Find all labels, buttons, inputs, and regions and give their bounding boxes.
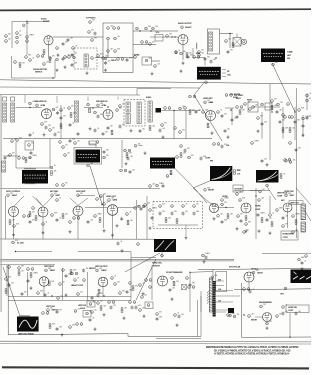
callout pair [284,159,291,162]
wire V branch V8a [70,198,78,206]
label crt socket [280,294,285,296]
resistor [127,220,129,225]
label vert osc lbl [46,306,56,308]
svg-text:220: 220 [149,58,152,60]
callout tone [145,59,148,62]
ground [89,127,92,130]
callout [236,193,239,196]
small circle below T3 [87,164,90,167]
callout filter [91,57,94,60]
label 2nd anode b [283,237,289,239]
svg-text:150: 150 [21,271,24,273]
wire b4 vert x136 [136,200,138,239]
label height [89,268,97,270]
svg-text:150: 150 [67,55,70,57]
callout 12au7 a [7,194,10,197]
resistor [35,216,37,221]
node [230,109,231,110]
box X a [182,285,187,290]
capacitor [224,129,227,133]
ground [269,231,272,234]
label video amp [106,196,117,198]
node [255,195,256,196]
callout pair b3 top [213,143,220,146]
wire band1/2 lower rail [0,87,200,88]
svg-text:WIDTH: WIDTH [251,320,258,322]
capacitor right b [295,312,298,316]
callout pair crt [243,288,250,291]
wire drop x186 [185,111,187,139]
wire left of tube [255,316,263,318]
svg-text:B+ 135V: B+ 135V [17,243,25,245]
svg-text:6SN7GT: 6SN7GT [153,266,161,268]
label vert output [95,266,108,268]
capacitor line filter [104,61,107,65]
wire B+ bus lower [0,260,234,262]
svg-text:150: 150 [92,20,95,22]
label 12BH7 [50,270,57,272]
label below blob6 [208,190,215,192]
callout [237,215,240,218]
label damper [259,301,272,304]
resistor [62,214,64,219]
svg-text:.047: .047 [274,105,277,107]
capacitor [89,318,92,322]
svg-text:.01: .01 [142,283,144,285]
winding T3 b [137,102,141,124]
svg-text:.002: .002 [90,220,93,222]
callout [111,277,114,280]
wire plate out [53,36,103,38]
callout [91,39,94,42]
callout [62,269,65,272]
capacitor [107,126,110,130]
tube V16 hi volt rect [244,272,254,282]
svg-text:20 KV PULSE: 20 KV PULSE [229,267,241,269]
ground [213,217,216,220]
wire V14 drop [102,287,104,297]
callout [13,225,16,228]
resistor right of blob5 [170,170,172,175]
switch contact 2 [114,37,117,40]
callout [277,103,280,106]
callout [259,190,262,193]
callout on rail b [156,184,159,187]
callout [68,107,71,110]
label hold [80,308,86,310]
ground [257,129,260,132]
resistor left of box [88,31,91,34]
capacitor b3 top [221,145,224,149]
capacitor [221,220,224,224]
tube V9 video output [107,205,118,216]
svg-text:.05: .05 [47,293,49,295]
label speaker field [111,60,117,62]
svg-text:.002: .002 [152,126,155,128]
callout [298,258,301,261]
callout [225,40,228,43]
winding T3 a1 [126,102,130,112]
svg-text:.047: .047 [60,111,63,113]
diag corner [296,188,311,205]
callout [59,141,62,144]
label T2 part [287,51,293,54]
callout [144,204,147,207]
component [126,213,129,216]
svg-text:PEAK: PEAK [247,99,253,102]
wire V11 out [218,207,234,209]
left edge winding [2,161,6,172]
label sync control [6,191,21,193]
svg-text:AFC DISC: AFC DISC [50,190,59,193]
component [62,146,65,149]
label tuner above [196,53,201,55]
tube V3 2nd video IF [42,109,52,119]
svg-text:220: 220 [63,116,66,118]
label 2nd video IF [35,101,48,103]
label agc keyer [230,93,241,96]
callout [282,306,285,309]
resistor [5,289,7,294]
wire left col [6,265,8,296]
resistor V12b r [295,220,297,225]
capacitor i1 [159,212,162,216]
callout [174,127,177,130]
callout [271,100,274,103]
svg-text:HEIGHT CONT: HEIGHT CONT [71,285,84,287]
node [150,30,151,31]
wire V branch V7b [36,198,43,207]
label in box [235,189,243,191]
svg-text:SYNC AMP: SYNC AMP [76,190,86,193]
svg-text:1 MEG: 1 MEG [254,141,259,143]
svg-text:.047: .047 [99,268,102,270]
svg-text:150: 150 [106,155,109,157]
svg-text:100: 100 [183,51,186,53]
callout [103,203,106,206]
wire V16 down [248,282,250,290]
capacitor C205 [71,53,74,57]
svg-text:1 MEG: 1 MEG [97,214,102,216]
svg-text:.047: .047 [110,49,113,51]
component below V17 [266,322,269,325]
svg-text:.05: .05 [92,318,94,320]
label 12AU7 a [12,194,19,197]
speaker frame [233,38,241,47]
ground [203,260,206,263]
capacitor [279,120,282,124]
box right ctl [145,302,153,309]
capacitor [119,125,122,129]
svg-text:.002: .002 [155,26,158,28]
node [101,204,102,205]
node [103,295,104,296]
capacitor i4 [193,212,196,216]
resistor R204 [26,36,29,39]
svg-text:TV PHONO: TV PHONO [86,18,96,20]
speaker diag 1 [233,38,241,47]
svg-text:470: 470 [262,189,265,191]
ground det [211,131,214,134]
capacitor i2 [171,212,174,216]
winding T1 [209,32,213,51]
wire CRT rail y289 [234,289,311,290]
component [62,184,65,187]
callout [171,277,174,280]
svg-text:VERT MULT: VERT MULT [44,266,55,268]
svg-text:470: 470 [282,120,285,122]
wire band4 right rail [234,190,258,192]
wire vert box right edge a [197,300,199,337]
capacitor [94,129,97,133]
ground [236,227,239,230]
svg-text:.01: .01 [177,313,179,315]
box around T3 blob [74,148,102,165]
tube V12a horiz osc [241,203,251,213]
callout [248,315,251,318]
callout [217,111,220,114]
label vert osc b [290,195,295,197]
capacitor [110,306,113,310]
callout 4.5 [176,156,179,159]
ground below V17 [266,326,269,329]
svg-text:WIDTH: WIDTH [208,190,215,192]
svg-text:.05: .05 [252,289,254,291]
pilot lamp [104,57,107,60]
svg-text:.01: .01 [285,305,287,307]
resistor [282,128,284,133]
svg-text:150: 150 [237,314,240,316]
callout [227,314,230,317]
svg-text:470: 470 [191,155,194,157]
svg-text:.01: .01 [178,50,180,52]
callout [137,243,140,246]
wire V9 drop [112,216,114,240]
resistor [271,222,273,227]
callout pair [76,323,83,326]
resistor [9,220,11,225]
svg-text:1ST VIDEO: 1ST VIDEO [234,95,244,97]
callout pair [37,55,44,58]
svg-text:100: 100 [80,292,83,294]
label b+ a [17,243,25,245]
capacitor rail b2 b [54,133,57,137]
label width [251,320,258,322]
svg-text:220: 220 [137,206,140,208]
capacitor [65,274,68,278]
svg-text:.047: .047 [309,93,311,95]
capacitor C204 [67,38,70,42]
label 6CB6 b [102,105,108,107]
callout 31 [56,47,59,50]
switch contact 1 [107,37,110,40]
capacitor right a [282,312,285,316]
wire band2 top rail left [0,94,140,96]
tube V4 3rd video IF [103,110,113,120]
box below blob6 [233,185,243,192]
diag tuner down-left [194,83,222,142]
svg-text:470: 470 [32,212,35,214]
capacitor [30,151,33,155]
svg-text:220: 220 [185,211,188,213]
svg-text:HORIZ DRIVE: HORIZ DRIVE [283,234,295,236]
svg-text:.047: .047 [67,153,70,155]
callout pair height [71,272,78,275]
interlock marks b [113,27,120,30]
svg-text:.002: .002 [147,203,150,205]
svg-text:.047: .047 [295,230,298,232]
ground [162,135,165,138]
ground [258,229,261,232]
svg-text:.047: .047 [279,110,282,112]
ground [143,314,146,317]
resistor right of blob6 [234,170,236,175]
svg-text:SYNC CONTROL: SYNC CONTROL [6,191,21,193]
wire x307 drop [306,93,308,110]
tube V8 sync amp [73,206,83,216]
svg-text:.01: .01 [304,261,306,263]
callout [74,279,77,282]
callout right of tone b [180,52,183,55]
resistor [99,218,101,223]
resistor R207 [49,58,51,63]
svg-text:1B3GT: 1B3GT [257,272,264,274]
svg-text:.01: .01 [19,31,21,33]
svg-text:220: 220 [207,100,210,102]
callout [49,129,52,132]
wire V branch a [14,196,25,207]
callout [198,51,201,54]
label small [281,199,285,202]
transformer T3 black block [76,150,101,163]
callout [243,231,246,234]
callout V12b r [292,215,295,218]
power transformer winding top [24,169,36,170]
tube V17 damper [263,313,272,322]
wire y195.5 [78,195,95,197]
capacitor [195,110,198,114]
label hi volt [251,268,259,270]
ground [103,313,106,316]
node [171,36,172,37]
callout below blob4 [56,184,59,187]
flyback bottom rungs [213,300,216,317]
node [51,295,52,296]
wire drop x295 [294,107,296,140]
switch contact 3 [107,50,110,53]
callout below V4 [94,111,97,114]
tube V1 ratio det 6AL5 [44,36,53,45]
svg-text:VIDEO OUT: VIDEO OUT [106,196,117,198]
callout [97,55,100,58]
speaker cone inner [243,41,245,43]
IF input top box a [3,97,7,101]
big callout crt [284,287,287,290]
callout [261,103,264,106]
wire cathode drop [182,45,184,61]
svg-text:470: 470 [54,193,57,195]
caption: Westinghouse model list [206,346,299,356]
callout phono c [56,58,59,61]
callout V12a below [245,223,248,226]
capacitor [44,293,47,297]
capacitor i3 [182,212,185,216]
ground tone [151,72,154,75]
component [239,199,242,202]
svg-text:.002: .002 [100,103,103,105]
wire det out [225,107,234,109]
bracket cap [200,157,203,161]
blob2 bracket tick b [222,72,226,74]
callout cap col b [174,314,177,317]
wire y271 link [190,271,213,274]
wire b5 vert x67 [62,268,64,300]
wire b5 vert x87 [87,272,89,300]
node [271,111,272,112]
resistor [261,218,263,223]
ground [94,327,97,330]
svg-text:2ND VIDEO I.F: 2ND VIDEO I.F [35,101,48,103]
callout [282,114,285,117]
resistor [30,273,32,278]
callout pair [42,312,49,315]
wire drop x283 [282,107,284,139]
component [306,99,309,102]
svg-text:.01: .01 [32,58,34,60]
capacitor [4,156,7,160]
callout [74,142,77,145]
wire y156 left [3,155,20,157]
callout i1 [159,205,162,208]
dashed box integrator [153,202,203,229]
callout in box [86,312,89,315]
svg-text:.002: .002 [90,163,93,165]
sound IF transformer T5 black block [150,158,175,169]
svg-text:150: 150 [142,129,145,131]
wire y107 seg [258,106,280,108]
capacitor [302,124,305,128]
label sound det [43,21,50,23]
svg-text:4.5 MC: 4.5 MC [41,17,47,20]
callout [184,107,187,110]
box below V15 [182,285,187,290]
callout [64,56,67,59]
callout pair peak [164,107,171,110]
wire y37 mid [53,36,103,38]
wire band4 bottom rail [0,238,156,240]
deflection yoke horiz block [256,170,279,183]
label smudge right V12a [255,206,261,208]
svg-text:SOUND: SOUND [43,21,50,23]
callout [149,43,152,46]
callout 23 [22,24,25,27]
resistor between blobs b3 [180,153,182,158]
callout [96,141,99,144]
deflection yoke vert block [210,166,232,181]
callout [152,27,155,30]
svg-text:470: 470 [94,38,97,40]
wire x296 long drop [296,88,298,238]
capacitor [266,218,269,222]
wire IF bottom rail [3,138,212,140]
svg-text:.002: .002 [86,268,89,270]
callout [161,124,164,127]
resistor R206 [43,50,45,55]
capacitor rail b2 d [102,132,105,136]
svg-text:.002: .002 [152,184,155,186]
svg-text:.01: .01 [60,296,62,298]
component between blobs b3 [180,145,183,148]
